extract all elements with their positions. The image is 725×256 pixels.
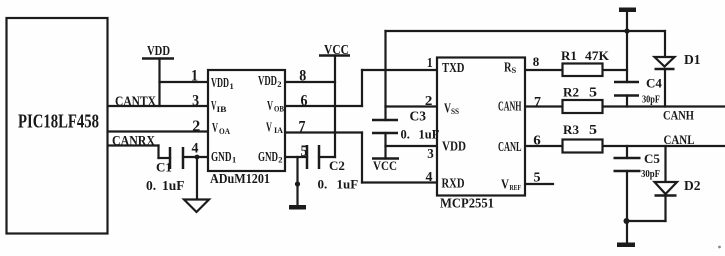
svg-text:MCP2551: MCP2551: [440, 197, 494, 212]
svg-text:0.: 0.: [146, 178, 156, 193]
svg-text:1uF: 1uF: [337, 177, 359, 192]
svg-text:C4: C4: [646, 76, 662, 91]
svg-text:CANL: CANL: [664, 132, 695, 147]
svg-text:5: 5: [301, 143, 308, 160]
svg-text:1uF: 1uF: [162, 178, 185, 193]
svg-text:PIC18LF458: PIC18LF458: [18, 112, 99, 133]
svg-text:CANH: CANH: [498, 100, 522, 115]
svg-text:5: 5: [589, 85, 597, 100]
svg-text:8: 8: [533, 54, 540, 69]
svg-text:ADuM1201: ADuM1201: [210, 172, 270, 187]
svg-text:R3: R3: [563, 122, 580, 137]
svg-text:VCC: VCC: [324, 42, 349, 57]
svg-text:IB: IB: [217, 104, 227, 114]
svg-text:SS: SS: [451, 106, 459, 116]
svg-text:4: 4: [192, 141, 199, 157]
svg-text:V: V: [266, 121, 272, 136]
svg-text:6: 6: [301, 93, 308, 110]
svg-text:CANL: CANL: [498, 140, 522, 155]
svg-text:V: V: [444, 102, 451, 117]
svg-text:2: 2: [277, 79, 281, 89]
svg-text:C1: C1: [156, 160, 172, 175]
svg-text:VDD: VDD: [211, 76, 229, 91]
svg-text:C2: C2: [329, 158, 345, 173]
svg-text:D1: D1: [684, 52, 701, 67]
svg-text:47K: 47K: [585, 48, 610, 63]
svg-text:3: 3: [192, 93, 199, 110]
svg-text:C3: C3: [410, 109, 427, 124]
svg-text:6: 6: [533, 134, 541, 149]
svg-text:VDD: VDD: [147, 43, 170, 58]
svg-text:VDD: VDD: [258, 74, 277, 89]
svg-text:1uF: 1uF: [419, 128, 440, 142]
svg-text:D2: D2: [684, 178, 701, 193]
svg-text:IA: IA: [274, 125, 284, 135]
svg-text:3: 3: [427, 147, 434, 162]
svg-text:1: 1: [191, 68, 198, 85]
svg-text:VCC: VCC: [373, 158, 397, 173]
svg-text:V: V: [267, 99, 273, 114]
svg-text:VDD: VDD: [442, 140, 466, 155]
svg-text:30pF: 30pF: [641, 169, 660, 180]
svg-text:0.: 0.: [401, 128, 410, 142]
svg-text:R2: R2: [563, 85, 579, 100]
svg-text:7: 7: [299, 119, 306, 136]
svg-text:1: 1: [232, 155, 236, 165]
svg-text:TXD: TXD: [442, 61, 465, 76]
svg-text:V: V: [212, 121, 218, 136]
svg-text:1: 1: [427, 56, 433, 71]
svg-text:4: 4: [426, 170, 433, 185]
svg-text:7: 7: [534, 95, 541, 110]
svg-text:CANTX: CANTX: [115, 94, 156, 109]
svg-text:REF: REF: [510, 183, 522, 192]
svg-text:0.: 0.: [318, 177, 328, 192]
svg-text:30pF: 30pF: [642, 95, 660, 106]
svg-text:V: V: [501, 178, 509, 193]
svg-text:1: 1: [230, 81, 234, 91]
svg-text:5: 5: [589, 122, 597, 137]
svg-text:OA: OA: [219, 126, 231, 136]
svg-text:2: 2: [425, 94, 433, 109]
svg-text:5: 5: [534, 171, 541, 186]
svg-text:S: S: [512, 65, 517, 75]
svg-text:GND: GND: [258, 150, 278, 165]
svg-text:2: 2: [192, 118, 200, 135]
svg-text:C5: C5: [644, 151, 660, 166]
svg-text:OB: OB: [274, 104, 284, 114]
svg-text:RXD: RXD: [442, 177, 465, 192]
svg-text:CANRX: CANRX: [112, 133, 155, 148]
svg-text:8: 8: [299, 68, 306, 85]
svg-text:2: 2: [278, 155, 282, 165]
svg-text:CANH: CANH: [663, 108, 694, 123]
svg-text:R1: R1: [561, 48, 577, 63]
svg-text:GND: GND: [211, 150, 232, 165]
